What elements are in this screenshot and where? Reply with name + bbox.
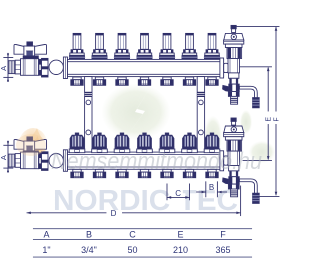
vent T-body bottom <box>224 151 240 165</box>
air vent body bottom <box>224 133 244 152</box>
outlet nut P5 <box>161 169 173 177</box>
air vent cap bottom <box>224 126 244 133</box>
ball valve V1 handle wings <box>14 42 47 59</box>
ball valve V2 inlet thread <box>8 154 20 168</box>
ball valve V1 inlet thread <box>8 60 20 74</box>
outlet nut N2 <box>93 77 105 85</box>
size table <box>33 229 251 257</box>
drain hose pipe top <box>241 88 256 97</box>
flow meter M2 <box>92 33 108 59</box>
ball valve V2 body <box>21 152 39 169</box>
thermostatic cap T2 <box>92 133 108 153</box>
watermark flame overlay on valve <box>16 134 46 156</box>
hose barb bottom <box>253 193 260 203</box>
dimension D <box>27 186 241 218</box>
svg-text:1": 1" <box>42 245 50 255</box>
vent T-body top <box>224 59 240 73</box>
outlet nut P7 <box>206 169 218 177</box>
watermark leaf right <box>249 141 275 163</box>
ball valve V2 handle wings <box>14 137 47 154</box>
manifold bar bottom <box>63 150 223 172</box>
watermark flame orange <box>18 128 48 166</box>
outlet nut P3 <box>116 169 128 177</box>
svg-text:A: A <box>0 66 8 71</box>
svg-text:A: A <box>43 229 49 239</box>
thermostatic cap T1 <box>69 133 85 153</box>
dimension A (top) <box>0 53 13 81</box>
drain outlet thread top <box>231 96 238 104</box>
svg-text:F: F <box>273 117 280 121</box>
dimension A (bottom) <box>0 141 13 172</box>
outlet nut P4 <box>138 169 150 177</box>
svg-text:Nemsemmitmondo.hu: Nemsemmitmondo.hu <box>51 148 262 175</box>
outlet nut N5 <box>161 77 173 85</box>
svg-text:50: 50 <box>127 245 137 255</box>
air vent nipple top <box>231 25 236 32</box>
union ball V1 <box>49 60 63 74</box>
hose barb top <box>253 98 260 108</box>
svg-text:D: D <box>111 209 117 218</box>
thermostatic cap T5 <box>159 133 175 153</box>
svg-text:A: A <box>0 155 8 160</box>
outlet nut P6 <box>183 169 195 177</box>
flow meter M3 <box>114 33 130 59</box>
svg-text:E: E <box>177 229 183 239</box>
svg-text:B: B <box>86 229 92 239</box>
dimension E line <box>240 67 272 161</box>
flow meter M1 <box>69 33 85 59</box>
drain valve top <box>223 84 240 96</box>
manifold bar top <box>63 57 223 79</box>
svg-text:210: 210 <box>173 245 188 255</box>
air vent body top <box>224 40 244 59</box>
air vent nipple bottom <box>231 118 236 125</box>
svg-text:C: C <box>175 189 181 198</box>
flow meter M7 <box>204 33 220 59</box>
outlet nut N3 <box>116 77 128 85</box>
outlet nut P1 <box>71 169 83 177</box>
mounting bracket B2 <box>197 77 204 152</box>
outlet nut N7 <box>206 77 218 85</box>
svg-text:B: B <box>209 183 214 192</box>
drain section top <box>229 73 239 84</box>
svg-text:E: E <box>265 117 272 122</box>
drain hose pipe bottom <box>241 180 256 192</box>
svg-text:365: 365 <box>215 245 230 255</box>
outlet nut N4 <box>138 77 150 85</box>
watermark leaf center <box>102 84 170 140</box>
ball valve V2 union nut <box>39 152 48 171</box>
air vent cap top <box>224 33 244 40</box>
union ball V2 <box>49 154 63 168</box>
outlet nut P2 <box>93 169 105 177</box>
watermark leaf mid-right <box>204 116 222 156</box>
thermostatic cap T4 <box>137 133 153 153</box>
dimension C <box>167 184 190 200</box>
thermostatic cap T7 <box>204 133 220 153</box>
outlet nut N6 <box>183 77 195 85</box>
drain valve bottom <box>223 177 240 189</box>
thermostatic cap T6 <box>182 133 198 153</box>
ball valve V1 body <box>21 59 39 76</box>
flow meter M5 <box>159 33 175 59</box>
dimension F line <box>236 26 280 196</box>
dimension B <box>197 182 227 197</box>
ball valve V1 union nut <box>39 58 48 77</box>
thermostatic cap T3 <box>114 133 130 153</box>
drain section bottom <box>229 166 239 177</box>
svg-text:C: C <box>129 229 136 239</box>
watermark leaf far-right <box>240 110 252 134</box>
svg-text:F: F <box>220 229 226 239</box>
outlet nut N1 <box>71 77 83 85</box>
mounting bracket B1 <box>85 77 92 152</box>
svg-text:3/4": 3/4" <box>81 245 97 255</box>
flow meter M6 <box>182 33 198 59</box>
flow meter M4 <box>137 33 153 59</box>
drain outlet thread bottom <box>231 189 238 197</box>
